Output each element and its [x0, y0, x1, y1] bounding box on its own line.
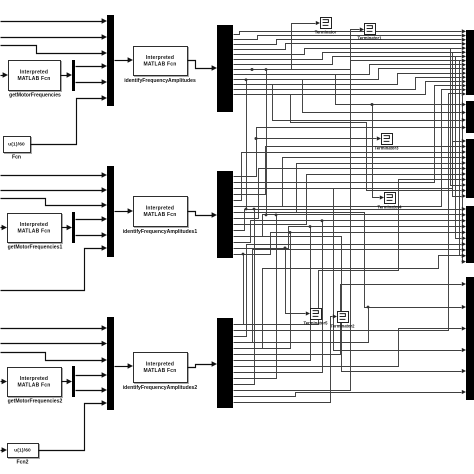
wire branch MuxOut1 in7 line to MuxOut4 in6	[456, 57, 467, 241]
junction on MuxOut2 in1 line	[371, 103, 374, 106]
block Fcn u(1)/60	[4, 137, 32, 161]
wire Demux1 out8 to MuxOut1 in8	[234, 58, 467, 69]
wire identifyFrequencyAmplitudes1 to Demux2	[188, 212, 218, 218]
wire branch Demux2 out3 to MuxOut5 in4	[234, 189, 467, 353]
wire Demux2 out5 to MuxOut3 in3	[234, 150, 467, 201]
wire getMotorFrequencies1 to Mux5	[62, 225, 73, 231]
mux Mux4	[72, 60, 75, 91]
wire Demux3 out14 to Terminator2	[234, 314, 338, 402]
wire Fcn1 to Mux2	[1, 245, 108, 290]
svg-text:getMotorFrequencies1: getMotorFrequencies1	[8, 245, 63, 251]
wire Demux2 out3 to MuxOut3 in1	[234, 139, 467, 189]
svg-text:getMotorFrequencies2: getMotorFrequencies2	[8, 399, 63, 405]
wire Demux3 out8 to MuxOut5 in3	[234, 326, 467, 366]
mux Mux5	[72, 212, 75, 243]
svg-text:MATLAB Fcn: MATLAB Fcn	[17, 228, 50, 234]
svg-text:Fcn: Fcn	[12, 155, 21, 161]
wire Demux2 out12 to MuxOut4 in3	[234, 219, 467, 243]
block getMotorFrequencies (Interpreted MATLAB Fcn)	[9, 61, 62, 99]
svg-text:MATLAB Fcn: MATLAB Fcn	[17, 382, 50, 388]
block Fcn2 u(1)/60	[1, 444, 40, 466]
wire Mux5 out1 to Mux2	[76, 216, 108, 222]
demux Demux2	[217, 171, 233, 258]
svg-text:Terminator5: Terminator5	[304, 321, 329, 326]
wire Demux1 out6 to MuxOut1 in6	[234, 50, 467, 59]
wire Demux3 out4 to MuxOut4 in8	[234, 248, 467, 343]
mux MuxOut4	[466, 206, 474, 263]
wire Demux1 out13 to MuxOut1 in13	[234, 79, 467, 94]
wire branch Demux2 out6 to MuxOut1 in15	[234, 88, 467, 207]
wire branch Demux2 out13 to Terminator5	[286, 249, 311, 316]
wire Demux3 out12 to Terminator1	[234, 27, 365, 390]
wire branch MuxOut1 in5 line to MuxOut3 in9	[451, 49, 467, 188]
wire Demux2 out14 to MuxOut4 in5	[234, 230, 467, 254]
wire getMotorFrequencies2 to Mux6	[62, 379, 73, 385]
wire Demux2 out1 to MuxOut2 in4	[234, 125, 467, 176]
mux MuxOut1	[466, 30, 474, 95]
wire getMotorFrequencies to Mux4	[61, 72, 73, 78]
mux Mux3	[107, 317, 114, 410]
wire Mux3 to identifyFrequencyAmplitudes2	[115, 363, 134, 369]
terminator Terminator1	[358, 24, 383, 41]
svg-text:MATLAB Fcn: MATLAB Fcn	[143, 368, 176, 374]
mux MuxOut3	[466, 139, 474, 198]
svg-text:Terminator4: Terminator4	[378, 205, 403, 210]
svg-text:getMotorFrequencies: getMotorFrequencies	[9, 93, 61, 99]
svg-text:Interpreted: Interpreted	[20, 70, 48, 76]
wire Demux1 out5 to MuxOut1 in5	[234, 46, 467, 55]
mux Mux6	[72, 366, 75, 397]
wire input to getMotorFrequencies1	[1, 225, 8, 231]
block identifyFrequencyAmplitudes1 (Interpreted MATLAB Fcn)	[123, 197, 198, 236]
wire Demux2 out8 to MuxOut3 in6	[234, 166, 467, 218]
wire branch MuxOut1 in9 line to MuxOut4 in10	[462, 65, 467, 264]
svg-text:MATLAB Fcn: MATLAB Fcn	[143, 61, 176, 67]
wire Fcn to Mux1	[31, 95, 108, 144]
wire Demux1 out4 to MuxOut1 in4	[234, 42, 467, 50]
wire Demux1 out8 to Terminator	[234, 21, 321, 70]
mux Mux2	[107, 166, 114, 257]
svg-text:u(1)/60: u(1)/60	[8, 142, 25, 148]
wire Demux1 out11 to MuxOut2 in3	[234, 85, 467, 123]
wire Demux3 out11 joins MuxOut4 in1 line	[234, 208, 256, 385]
wire Demux3 out10 joins MuxOut4 in2 line	[234, 213, 278, 378]
wire Demux1 out11 to MuxOut1 in11	[234, 71, 467, 85]
wire Mux5 out2 to Mux2	[76, 232, 108, 238]
wire In5 to Mux2	[1, 187, 108, 193]
wire branch Demux2 out2 to MuxOut1 in14	[234, 84, 467, 183]
wire Demux1 out13 to MuxOut3 in10	[234, 95, 467, 193]
wire branch Demux2 out11 to MuxOut5 in5	[234, 237, 467, 374]
wire Demux1 out9 to MuxOut1 in9	[234, 63, 467, 75]
wire Mux2 to identifyFrequencyAmplitudes1	[115, 208, 134, 214]
wire Demux1 out3 to MuxOut1 in3	[234, 38, 467, 45]
wire Demux1 out1 to MuxOut1 in1	[234, 29, 467, 34]
wire input to getMotorFrequencies	[1, 72, 9, 78]
junction on MuxOut2 in4 riser	[255, 137, 258, 140]
mux MuxOut5	[466, 277, 474, 400]
wire Mux1 to identifyFrequencyAmplitudes	[115, 57, 134, 63]
svg-text:Interpreted: Interpreted	[20, 376, 48, 382]
junction on Demux2 out13 wire	[284, 247, 287, 250]
wire input to getMotorFrequencies2	[1, 379, 8, 385]
svg-text:Fcn2: Fcn2	[17, 460, 29, 466]
wire Demux1 out2 to MuxOut1 in2	[234, 33, 467, 39]
wire In7 to Mux3	[1, 325, 108, 331]
wire Mux6 out2 to Mux3	[76, 387, 108, 393]
wire branch Demux1 out10 joins MuxOut4 in1 line	[245, 78, 248, 210]
wire branch MuxOut2 in4 riser to Terminator3	[257, 136, 382, 140]
wire branch Demux3 out2 to MuxOut1 in16	[234, 92, 467, 331]
wire Demux3 out5 to MuxOut4 in9	[234, 254, 467, 349]
wire identifyFrequencyAmplitudes2 to Demux3	[188, 361, 218, 367]
wire In2 to Mux1	[1, 34, 108, 40]
wire Demux1 out10 to MuxOut2 in2	[234, 80, 467, 115]
terminator Terminator	[315, 18, 337, 35]
junction on Demux1 out8 wire	[251, 68, 254, 71]
svg-text:Terminator: Terminator	[315, 30, 337, 35]
wire branch MuxOut2 in1 line to Terminator4	[373, 105, 385, 200]
svg-text:Terminator2: Terminator2	[331, 324, 356, 329]
wire Mux4 out2 to Mux1	[76, 79, 108, 85]
wire Demux1 out12 to MuxOut1 in12	[234, 75, 467, 89]
demux Demux1	[217, 25, 233, 112]
wire Demux3 out7 joins MuxOut4 in4 line	[234, 225, 312, 360]
svg-text:MATLAB Fcn: MATLAB Fcn	[17, 76, 50, 82]
svg-text:Terminator1: Terminator1	[358, 36, 383, 41]
wire Demux3 out13 to MuxOut5 in6	[234, 390, 467, 397]
wire Demux3 out5 joins MuxOut4 in5 line	[234, 231, 292, 349]
svg-text:MATLAB Fcn: MATLAB Fcn	[143, 212, 176, 218]
wire identifyFrequencyAmplitudes to Demux1	[188, 61, 218, 71]
wire branch Demux1 out8 joins MuxOut4 in2 line	[265, 68, 268, 216]
wire In8 to Mux3	[1, 341, 108, 347]
mux Mux1	[107, 15, 114, 106]
terminator Terminator2	[331, 312, 356, 329]
block getMotorFrequencies2 (Interpreted MATLAB Fcn)	[8, 368, 63, 405]
wire Demux3 out4 joins MuxOut5 in2 line	[234, 306, 370, 343]
block identifyFrequencyAmplitudes2 (Interpreted MATLAB Fcn)	[123, 353, 198, 392]
svg-text:Terminator3: Terminator3	[375, 146, 400, 151]
demux Demux3	[217, 318, 233, 408]
mux MuxOut2	[466, 101, 474, 133]
svg-text:Interpreted: Interpreted	[146, 362, 174, 368]
wire Demux2 out9 to MuxOut3 in7	[234, 172, 467, 225]
wire Demux1 out10 to MuxOut1 in10	[234, 67, 467, 80]
wire Fcn2 to Mux3	[39, 400, 108, 450]
wire Demux2 out7 to MuxOut3 in5	[234, 161, 467, 213]
svg-text:Interpreted: Interpreted	[146, 206, 174, 212]
wire Mux6 out1 to Mux3	[76, 372, 108, 378]
wire In1 to Mux1	[1, 18, 108, 24]
wire branch MuxOut1 in8 line to MuxOut4 in9	[460, 61, 467, 258]
wire Demux3 out1 to MuxOut3 in8	[234, 177, 467, 324]
wire Demux2 out6 to MuxOut3 in4	[234, 155, 467, 206]
wire In9 to Mux3	[1, 353, 108, 363]
wire In3 to Mux1	[1, 46, 108, 56]
wire branch Demux2 out7 to MuxOut5 in2	[234, 213, 467, 310]
terminator Terminator4	[378, 193, 403, 210]
wire Demux1 out9 to MuxOut2 in1	[234, 75, 467, 107]
svg-text:u(1)/60: u(1)/60	[14, 448, 31, 454]
wire Mux4 out1 to Mux1	[76, 63, 108, 69]
svg-text:identifyFrequencyAmplitudes1: identifyFrequencyAmplitudes1	[123, 229, 198, 235]
wire Demux2 out4 to MuxOut3 in2	[234, 144, 467, 194]
wire Demux2 out10 to MuxOut4 in1	[234, 207, 467, 231]
terminator Terminator3	[375, 134, 400, 151]
wire Demux3 out3 to MuxOut4 in7	[234, 242, 467, 337]
wire Demux1 out7 to MuxOut1 in7	[234, 54, 467, 64]
wire Demux2 out13 to MuxOut4 in4	[234, 224, 467, 248]
svg-text:Interpreted: Interpreted	[20, 222, 48, 228]
wire Demux2 out11 to MuxOut4 in2	[234, 213, 467, 237]
svg-text:Interpreted: Interpreted	[146, 55, 174, 61]
svg-text:identifyFrequencyAmplitudes2: identifyFrequencyAmplitudes2	[123, 385, 198, 391]
block identifyFrequencyAmplitudes (Interpreted MATLAB Fcn)	[124, 47, 196, 85]
wire Demux3 out9 joins MuxOut4 in3 line	[234, 219, 324, 372]
svg-text:identifyFrequencyAmplitudes: identifyFrequencyAmplitudes	[124, 78, 196, 84]
terminator Terminator5	[304, 309, 329, 326]
wire Demux3 out6 to MuxOut5 in1	[234, 282, 467, 355]
wire branch Demux2 out14 line joins Demux3 out1 line	[242, 253, 251, 325]
wire branch MuxOut1 in6 line to MuxOut3 in11	[453, 53, 467, 199]
wire In4 to Mux2	[1, 172, 108, 178]
wire In6 to Mux2	[1, 199, 108, 208]
block getMotorFrequencies1 (Interpreted MATLAB Fcn)	[8, 214, 63, 251]
